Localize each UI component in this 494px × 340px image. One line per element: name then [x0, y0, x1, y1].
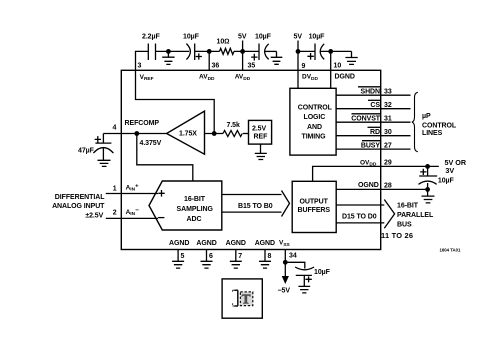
- svg-text:1.75X: 1.75X: [179, 131, 197, 138]
- resistor R2 7.5k: [223, 131, 242, 137]
- plus sign C5: [95, 136, 101, 143]
- ground under OGND node: [422, 189, 435, 203]
- svg-text:10Ω: 10Ω: [217, 39, 230, 46]
- wire pin5 ground: [172, 250, 184, 269]
- label minus input: [158, 217, 164, 219]
- svg-text:36: 36: [212, 63, 220, 70]
- svg-text:DGND: DGND: [335, 74, 355, 81]
- wire VSS pin34 down: [284, 250, 286, 278]
- node dot pin36: [207, 49, 212, 54]
- svg-text:LOGIC: LOGIC: [304, 114, 326, 121]
- node dot rail-ground junction: [166, 49, 171, 54]
- plus sign C4: [307, 53, 313, 60]
- svg-text:1: 1: [113, 186, 117, 193]
- svg-text:CS: CS: [370, 102, 380, 109]
- ground right of C3: [271, 51, 283, 64]
- capacitor C4 10uF straight plate: [314, 44, 316, 61]
- wire REFCOMP tap down to ADC: [137, 134, 193, 182]
- svg-text:34: 34: [289, 253, 297, 260]
- svg-text:PARALLEL: PARALLEL: [397, 212, 434, 219]
- capacitor C5 47uF curved plate: [93, 148, 113, 153]
- svg-text:4: 4: [113, 125, 117, 132]
- wire CS line: [336, 108, 410, 110]
- svg-text:SAMPLING: SAMPLING: [177, 206, 214, 213]
- plus sign C7: [305, 276, 311, 282]
- svg-text:30: 30: [384, 129, 392, 136]
- wire pin35 vertical: [242, 51, 244, 70]
- label plus input: [158, 190, 164, 197]
- wire pin8 ground: [259, 250, 271, 269]
- svg-text:27: 27: [384, 143, 392, 150]
- wire pin6 ground: [201, 250, 213, 269]
- capacitor C5 47uF straight plate: [95, 134, 111, 144]
- plus sign C3: [251, 54, 257, 61]
- wire OGND line pin28: [336, 188, 427, 190]
- capacitor C3 10uF curved plate: [265, 44, 269, 60]
- svg-text:2.2µF: 2.2µF: [142, 34, 160, 41]
- plus sign C6: [420, 169, 426, 175]
- node dot pin35: [240, 49, 245, 54]
- capacitor C7 10uF curved plate: [295, 267, 314, 270]
- capacitor C7 10uF straight plate: [296, 275, 312, 286]
- svg-text:2.5V: 2.5V: [252, 126, 266, 133]
- svg-text:6: 6: [209, 253, 213, 260]
- svg-text:TIMING: TIMING: [302, 133, 327, 140]
- wire R2 to 2.5V REF box: [243, 133, 249, 135]
- node dot OGND ground: [425, 187, 430, 192]
- wire OVDD line pin29: [313, 166, 439, 181]
- block 2.5V REF: [249, 120, 272, 144]
- node dot OVDD cap: [425, 164, 430, 169]
- svg-text:1604 TA01: 1604 TA01: [440, 248, 462, 253]
- wire 5V drop to pin9: [297, 41, 299, 52]
- svg-text:9: 9: [302, 63, 306, 70]
- svg-text:29: 29: [384, 159, 392, 166]
- svg-text:3V: 3V: [445, 166, 454, 175]
- wire AIN-: [106, 217, 158, 219]
- svg-text:B15 TO B0: B15 TO B0: [238, 203, 273, 210]
- svg-text:ANALOG INPUT: ANALOG INPUT: [52, 203, 105, 210]
- svg-text:AND: AND: [307, 124, 322, 131]
- svg-text:5V: 5V: [238, 34, 247, 41]
- svg-text:32: 32: [384, 102, 392, 109]
- svg-text:REFCOMP: REFCOMP: [125, 120, 160, 127]
- wire amp input node to R2: [205, 133, 224, 135]
- placeholder box with T icon: [222, 279, 262, 318]
- svg-text:CONTROL: CONTROL: [422, 123, 457, 130]
- wire SHDN line: [336, 94, 410, 96]
- svg-text:10µF: 10µF: [309, 34, 326, 41]
- wire pin10 vertical into DVDD cell: [330, 51, 332, 88]
- wire rail C1 to C2: [156, 50, 190, 52]
- brace uP control lines: [412, 92, 418, 152]
- wire top rail segment pin3 to C1: [136, 51, 149, 70]
- svg-text:AGND: AGND: [226, 240, 246, 247]
- svg-text:CONTROL: CONTROL: [298, 105, 333, 112]
- svg-text:SHDN: SHDN: [360, 89, 380, 96]
- svg-text:10µF: 10µF: [438, 178, 455, 185]
- svg-text:BUS: BUS: [397, 222, 412, 229]
- wire rail R1 to C3: [234, 50, 259, 52]
- svg-text:RD: RD: [370, 129, 380, 136]
- capacitor C4 10uF curved plate: [320, 44, 324, 60]
- wire CONVST line: [336, 121, 410, 123]
- svg-text:OGND: OGND: [358, 182, 379, 189]
- ground under C7: [298, 286, 310, 293]
- block output buffers: [292, 181, 336, 232]
- svg-text:31: 31: [384, 116, 392, 123]
- chip U1 LTC1604 outline: [121, 70, 380, 249]
- capacitor C3 10uF straight plate: [258, 44, 260, 61]
- svg-text:µP: µP: [422, 113, 431, 120]
- wire pin36 vertical: [208, 51, 210, 70]
- svg-text:BUSY: BUSY: [361, 143, 381, 150]
- svg-text:8: 8: [268, 253, 272, 260]
- capacitor C1 2.2uF plates: [148, 44, 155, 61]
- wire RD line: [336, 135, 410, 137]
- svg-text:AGND: AGND: [196, 240, 216, 247]
- svg-text:CONVST: CONVST: [351, 116, 380, 123]
- bus arrow D15 TO D0: [336, 200, 394, 229]
- svg-text:10: 10: [334, 63, 342, 70]
- svg-text:16-BIT: 16-BIT: [397, 203, 419, 210]
- svg-text:LINES: LINES: [422, 130, 443, 137]
- svg-text:AGND: AGND: [255, 240, 275, 247]
- ground right of pin10: [345, 51, 357, 64]
- svg-text:DIFFERENTIAL: DIFFERENTIAL: [55, 194, 105, 201]
- wire C6 to OGND node: [427, 183, 429, 189]
- capacitor C6 10uF curved plate: [419, 181, 437, 184]
- svg-text:5V: 5V: [294, 34, 303, 41]
- svg-text:2: 2: [113, 210, 117, 217]
- svg-text:7.5k: 7.5k: [227, 122, 240, 129]
- svg-text:33: 33: [384, 89, 392, 96]
- svg-text:4.375V: 4.375V: [140, 140, 162, 147]
- wire REFCOMP pin4: [103, 133, 166, 135]
- node dot pin10: [328, 49, 333, 54]
- svg-text:35: 35: [248, 63, 256, 70]
- capacitor C2 10uF straight plate: [194, 44, 196, 61]
- svg-text:ADC: ADC: [187, 216, 202, 223]
- wire VREF feedback pin3 down and over to amp input node: [136, 70, 215, 133]
- wire rail pin9 to C4: [298, 50, 315, 52]
- wire C4 to pin10 and ground: [320, 50, 351, 52]
- wire pin7 ground: [230, 250, 242, 269]
- svg-text:11 TO 26: 11 TO 26: [381, 231, 413, 240]
- svg-text:−5V: −5V: [278, 288, 291, 295]
- plus sign C2: [196, 53, 202, 59]
- ground under rail junction: [162, 51, 174, 64]
- wire 5V drop to pin35: [242, 41, 244, 52]
- ground under 2.5V REF: [255, 153, 267, 159]
- wire C3 to ground: [265, 50, 277, 52]
- resistor R1 10ohm: [220, 48, 234, 54]
- wire 2.5V REF to ground: [260, 144, 262, 153]
- wire C5 to ground: [102, 148, 104, 161]
- svg-text:3: 3: [138, 63, 142, 70]
- T icon selection marks: [232, 290, 252, 306]
- arrow -5V: [282, 276, 289, 284]
- svg-text:10µF: 10µF: [255, 34, 272, 41]
- wire BUSY line: [336, 148, 410, 150]
- svg-text:AGND: AGND: [169, 240, 189, 247]
- svg-text:10µF: 10µF: [183, 34, 200, 41]
- svg-text:REF: REF: [254, 134, 269, 141]
- svg-text:D15 TO D0: D15 TO D0: [342, 213, 377, 220]
- svg-text:47µF: 47µF: [78, 148, 95, 155]
- node dot VSS: [283, 260, 288, 265]
- op-amp A1 1.75X triangle: [167, 111, 205, 154]
- svg-text:10µF: 10µF: [314, 269, 331, 276]
- svg-text:BUFFERS: BUFFERS: [298, 207, 331, 214]
- svg-text:7: 7: [238, 253, 242, 260]
- capacitor C6 10uF straight plate: [419, 166, 437, 176]
- ADC pentagon 16-bit sampling: [149, 181, 222, 230]
- bus arrow B15 TO B0: [222, 191, 290, 217]
- ground under C5: [98, 160, 111, 166]
- node dot pin9: [296, 49, 301, 54]
- node dot REFCOMP junction: [134, 131, 139, 136]
- wire AIN+: [106, 193, 158, 195]
- svg-text:16-BIT: 16-BIT: [184, 196, 206, 203]
- svg-text:5: 5: [181, 253, 185, 260]
- block control logic and timing: [290, 88, 336, 155]
- svg-text:±2.5V: ±2.5V: [85, 212, 103, 219]
- svg-text:OUTPUT: OUTPUT: [300, 198, 329, 205]
- node dot amp input: [212, 131, 217, 136]
- wire pin9 vertical into DVDD cell: [297, 51, 299, 88]
- capacitor C2 10uF curved plate: [186, 44, 190, 60]
- wire VSS to C7: [285, 262, 305, 268]
- wire rail C2 to R1: [195, 50, 220, 52]
- svg-text:28: 28: [384, 182, 392, 189]
